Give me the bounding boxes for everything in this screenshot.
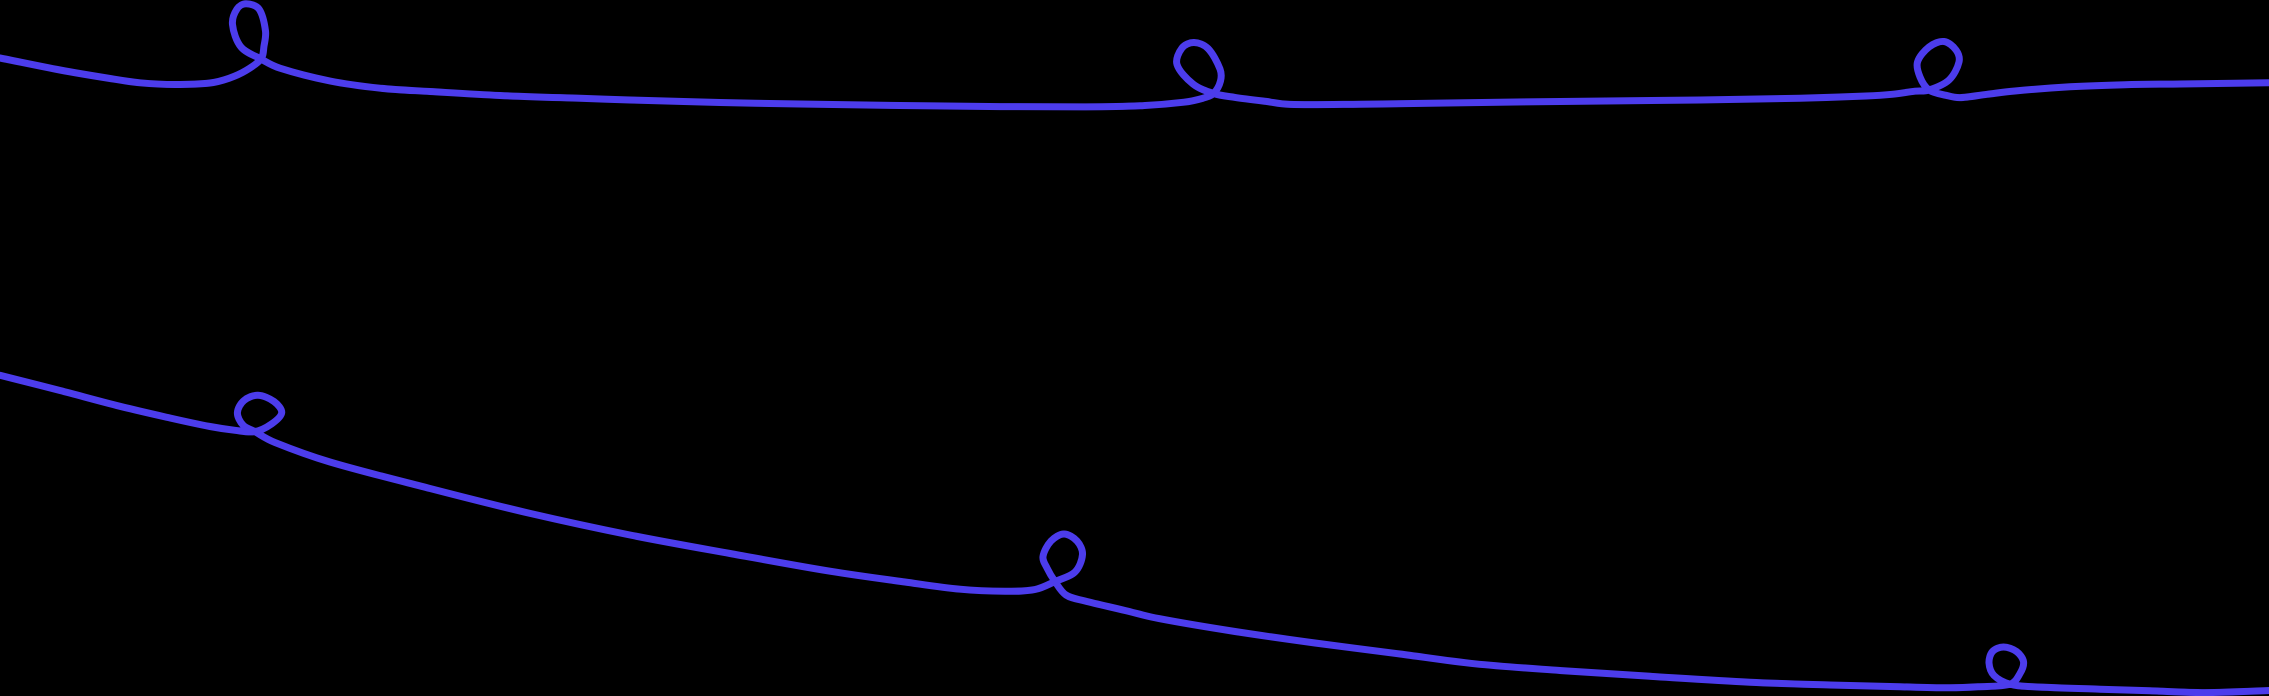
- top squiggle line with three loops: [0, 4, 2269, 107]
- bottom squiggle line with three loops: [0, 374, 2269, 693]
